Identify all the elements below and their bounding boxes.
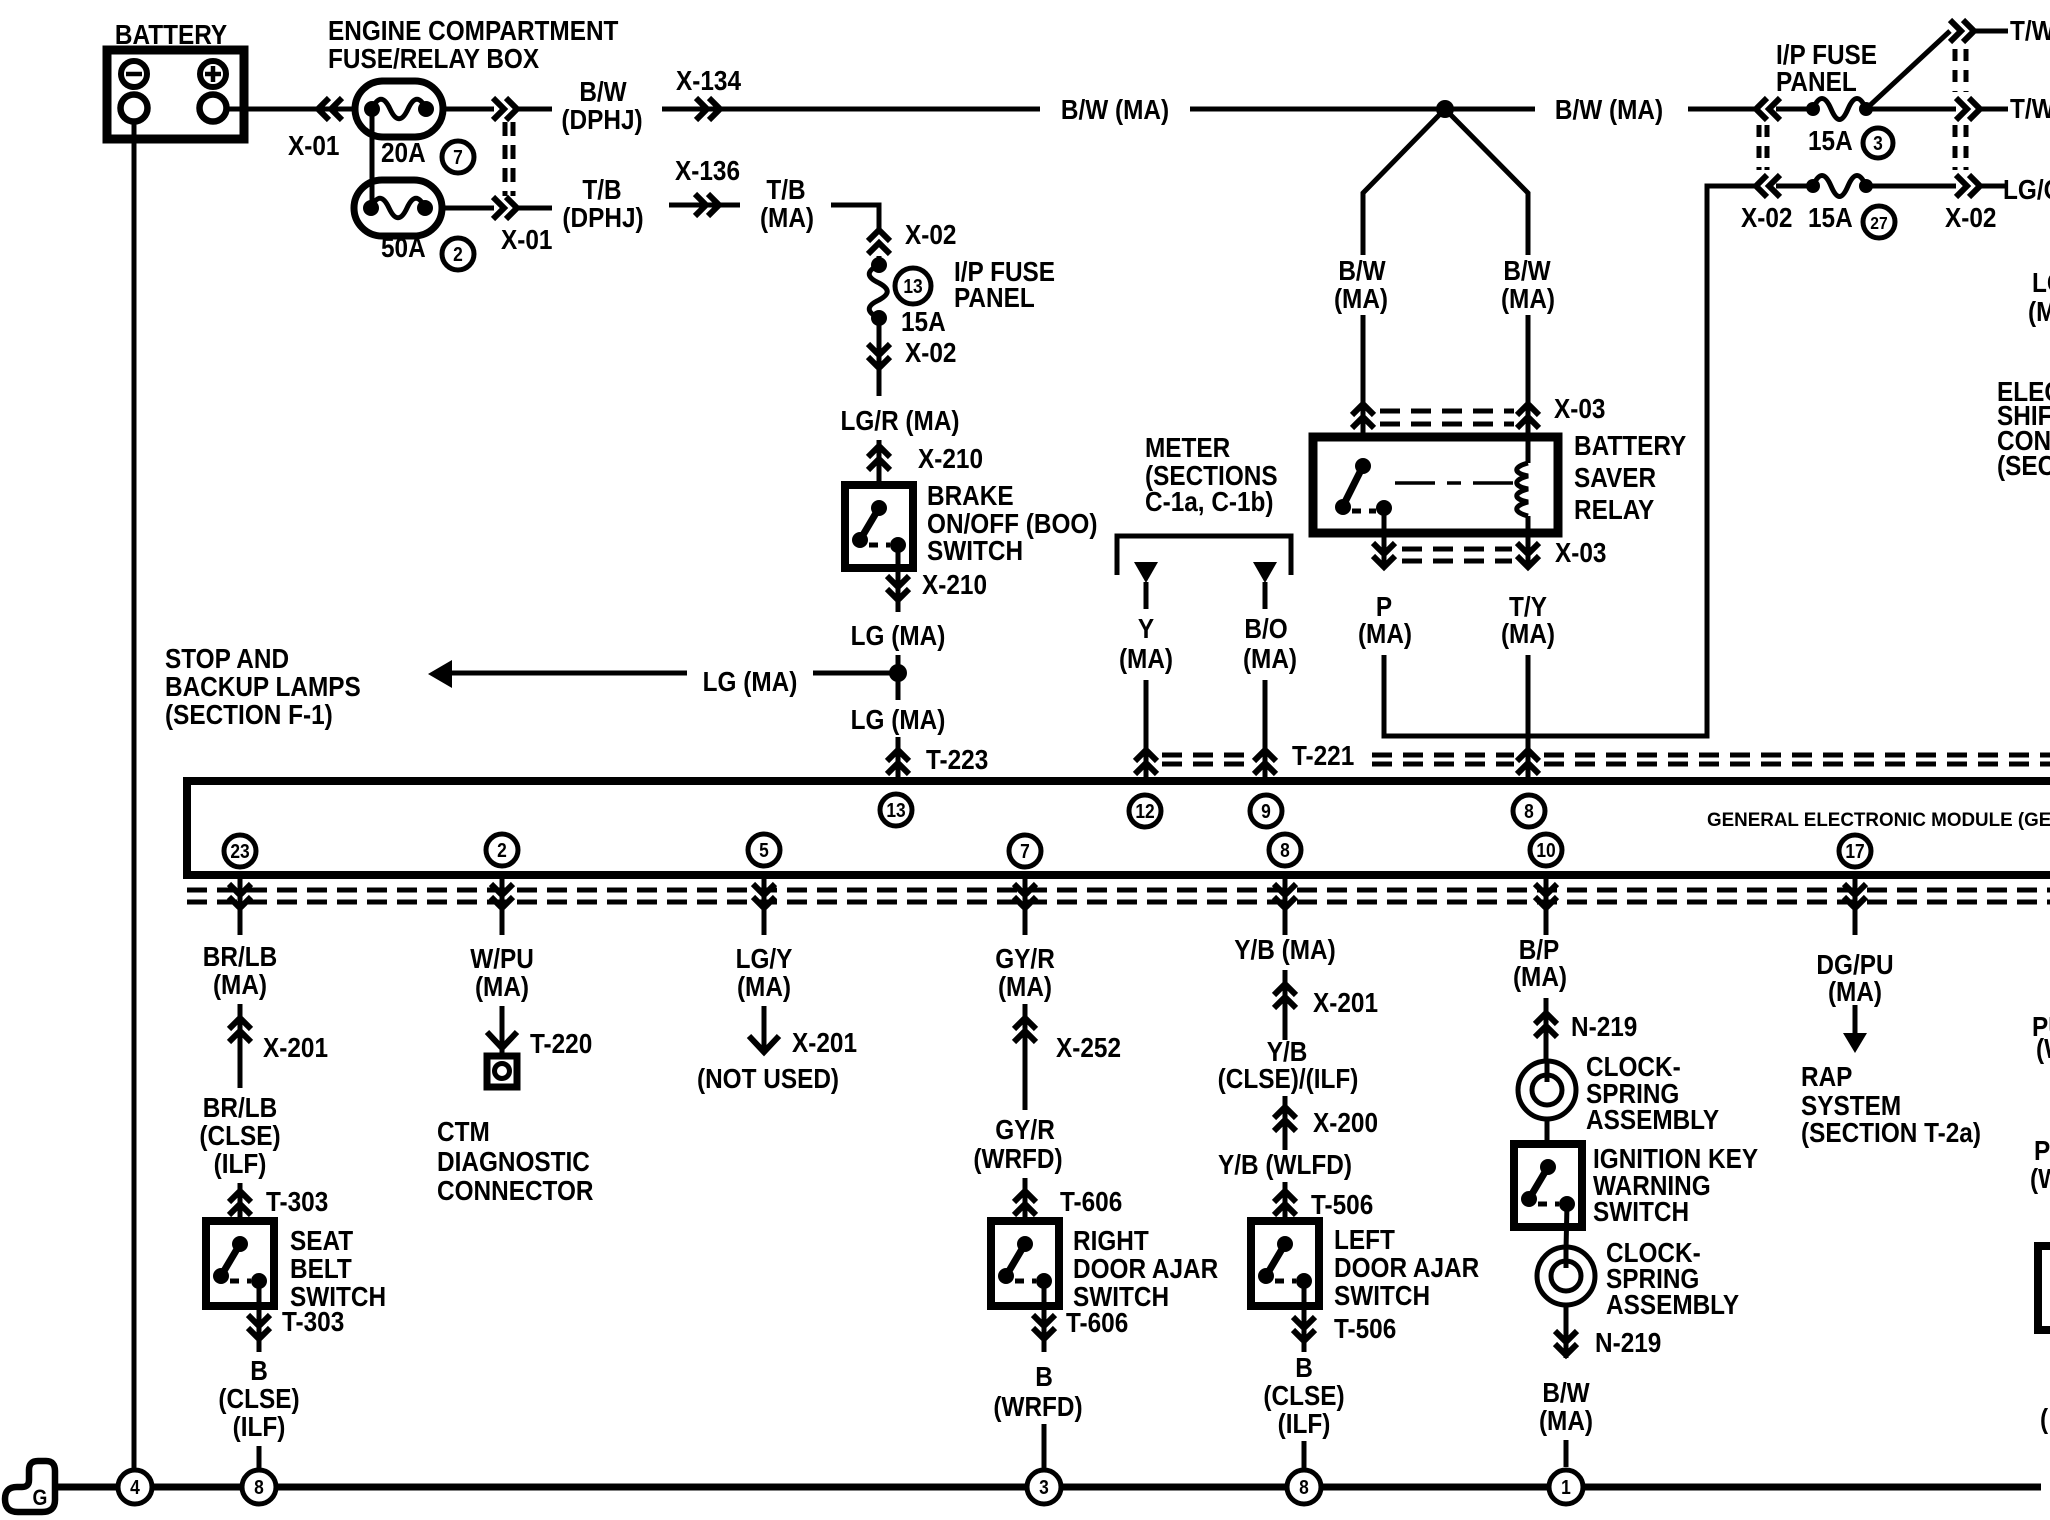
- GEM bottom connector chevrons x=764: [753, 884, 775, 908]
- wire LG to splice: [896, 655, 901, 700]
- CTM diagnostic connector icon: [487, 1056, 517, 1087]
- junction node B/W splice: [1436, 100, 1454, 118]
- svg-text:7: 7: [453, 146, 463, 168]
- svg-text:4: 4: [130, 1476, 140, 1498]
- connector T-223 chevrons: [887, 750, 909, 774]
- svg-text:BATTERY: BATTERY: [1574, 429, 1687, 461]
- wire P to I/P fuse panel feed: [1384, 186, 1756, 736]
- svg-text:X-201: X-201: [263, 1031, 328, 1063]
- connector T-606 chevrons below: [1033, 1315, 1055, 1339]
- connector X-02 chevrons below fuse 13: [868, 344, 890, 368]
- svg-text:17: 17: [1845, 840, 1864, 862]
- wire into fuse 13: [877, 256, 882, 266]
- svg-text:T-223: T-223: [926, 743, 988, 775]
- svg-text:Y/B (MA): Y/B (MA): [1234, 933, 1335, 965]
- svg-text:C-1a, C-1b): C-1a, C-1b): [1145, 485, 1274, 517]
- connector X-201 chevrons pin23: [229, 1018, 251, 1042]
- svg-text:(MA): (MA): [1501, 282, 1555, 314]
- svg-text:LG (MA): LG (MA): [703, 665, 798, 697]
- svg-text:7: 7: [1020, 840, 1030, 862]
- svg-text:(MA): (MA): [1513, 960, 1567, 992]
- svg-text:T-220: T-220: [530, 1027, 592, 1059]
- ground symbol G: [5, 1461, 55, 1512]
- fuse 27 15A (I/P fuse panel): [1813, 176, 1866, 197]
- svg-text:X-136: X-136: [675, 154, 740, 186]
- svg-text:(MA): (MA): [1243, 642, 1297, 674]
- wire BR/LB: [238, 1004, 243, 1088]
- svg-text:(WRFD): (WRFD): [973, 1142, 1062, 1174]
- connector dashed links right column: [1953, 49, 1958, 92]
- svg-text:(ILF): (ILF): [1278, 1407, 1331, 1439]
- connector T-221 dashed line: [1162, 753, 1250, 758]
- svg-text:8: 8: [1299, 1476, 1309, 1498]
- relay mechanical link dash-dot: [1395, 481, 1516, 485]
- ground bus node 8 (seat belt): [242, 1470, 276, 1504]
- brake on/off (BOO) switch: [845, 485, 913, 568]
- ground bus node 8 (left door): [1287, 1470, 1321, 1504]
- wire battery positive to fuse box: [227, 107, 356, 112]
- svg-text:X-01: X-01: [501, 223, 552, 255]
- svg-text:CONNECTOR: CONNECTOR: [437, 1174, 594, 1206]
- svg-text:LG (MA): LG (MA): [851, 619, 946, 651]
- connector X-02 chevrons above fuse 13: [868, 230, 890, 254]
- svg-text:(MA): (MA): [1334, 282, 1388, 314]
- meter bracket: [1117, 536, 1291, 575]
- GEM bottom connector chevrons x=240: [229, 884, 251, 908]
- connector X-03 dashed line below relay: [1402, 547, 1512, 552]
- GEM pin 2: [486, 834, 518, 866]
- connector X-01 right chevrons row2: [493, 197, 517, 219]
- svg-text:8: 8: [1524, 800, 1534, 822]
- connector T-221 chevron Y: [1135, 750, 1157, 774]
- svg-text:N-219: N-219: [1571, 1010, 1637, 1042]
- wire fuse 20A output: [443, 107, 494, 112]
- svg-text:(W: (W: [2036, 1032, 2050, 1064]
- relay switch contact: [1355, 458, 1371, 474]
- wire seat belt switch output: [257, 1281, 262, 1352]
- svg-text:T-606: T-606: [1060, 1185, 1122, 1217]
- wire B/W (MA) main feed: [662, 107, 1040, 112]
- connector N-219 chevrons below: [1555, 1331, 1577, 1355]
- wire T/B (MA) to I/P fuse 13: [831, 205, 879, 230]
- svg-text:15A: 15A: [1808, 124, 1853, 156]
- svg-text:15A: 15A: [901, 305, 946, 337]
- svg-text:3: 3: [1039, 1476, 1049, 1498]
- connector X-210 below BOO switch: [887, 576, 909, 600]
- GEM bottom connector chevrons x=1546: [1535, 884, 1557, 908]
- svg-text:X-134: X-134: [676, 64, 741, 96]
- svg-text:B/O: B/O: [1244, 612, 1287, 644]
- svg-text:X-02: X-02: [1945, 201, 1996, 233]
- wire B/P: [1544, 998, 1549, 1062]
- connector T-606 chevrons above: [1014, 1191, 1036, 1215]
- svg-text:DIAGNOSTIC: DIAGNOSTIC: [437, 1145, 590, 1177]
- wire to LG/R label: [877, 368, 882, 396]
- svg-text:LG (MA): LG (MA): [851, 703, 946, 735]
- svg-text:(ILF): (ILF): [214, 1147, 267, 1179]
- svg-text:1: 1: [1561, 1476, 1571, 1498]
- svg-text:RAP: RAP: [1801, 1060, 1852, 1092]
- svg-text:(SECTION T-2a): (SECTION T-2a): [1801, 1116, 1981, 1148]
- wire B/W (MA) to I/P fuse panel: [1688, 107, 1756, 112]
- svg-text:G: G: [33, 1486, 48, 1511]
- svg-text:(MA): (MA): [1828, 975, 1882, 1007]
- GEM pin 9: [1250, 795, 1282, 827]
- clock-spring assembly lower: [1537, 1247, 1595, 1305]
- wire to seat belt switch: [238, 1183, 243, 1221]
- wire DG/PU with arrow to RAP system: [1853, 1005, 1858, 1037]
- wire GEM pin column x=1855: [1853, 879, 1858, 935]
- connector T-303 chevrons below: [248, 1315, 270, 1339]
- svg-text:Y/B (WLFD): Y/B (WLFD): [1218, 1148, 1352, 1180]
- svg-text:10: 10: [1536, 839, 1555, 861]
- wire LG to GEM pin 13: [896, 737, 901, 781]
- wire fuse link: [370, 109, 375, 208]
- connector X-03 chevrons above relay: [1352, 404, 1374, 428]
- fuse 13 circuit number: [895, 268, 931, 304]
- svg-text:T/W: T/W: [2010, 92, 2050, 124]
- wire fuse 3 diagonal branch: [1866, 31, 1950, 109]
- wire right door switch output: [1042, 1281, 1047, 1352]
- meter output arrow B/O: [1253, 562, 1277, 583]
- GEM bottom connector dashed lines: [187, 888, 2050, 893]
- svg-text:T-506: T-506: [1334, 1312, 1396, 1344]
- svg-text:12: 12: [1135, 800, 1154, 822]
- ground bus node 4: [118, 1470, 152, 1504]
- svg-text:B/W (MA): B/W (MA): [1555, 93, 1663, 125]
- ground bus wire: [56, 1484, 119, 1491]
- fuse 3 15A (I/P fuse panel): [1813, 99, 1866, 120]
- wire GEM pin column x=240: [238, 879, 243, 935]
- battery negative terminal: [121, 61, 147, 87]
- connector X-01 dashed link: [503, 122, 508, 196]
- svg-text:BATTERY: BATTERY: [115, 18, 228, 50]
- wire to left door ajar switch: [1283, 1182, 1288, 1221]
- svg-text:20A: 20A: [381, 136, 426, 168]
- svg-text:27: 27: [1870, 213, 1887, 233]
- connector dashed links left column: [1757, 125, 1762, 170]
- svg-text:(WRFD): (WRFD): [993, 1390, 1082, 1422]
- svg-text:GY/R: GY/R: [995, 1113, 1055, 1145]
- battery positive terminal: [200, 61, 226, 87]
- wire GEM pin column x=502: [500, 879, 505, 935]
- left door ajar switch: [1251, 1221, 1319, 1306]
- clock-spring assembly upper: [1518, 1061, 1576, 1119]
- svg-text:3: 3: [1873, 132, 1883, 154]
- wire fuse 27 output: [1866, 184, 1956, 189]
- ground bus node 1 (ignition): [1549, 1470, 1583, 1504]
- wire W/PU with T-220 arrow: [500, 1006, 505, 1056]
- wire left door switch output: [1302, 1281, 1307, 1352]
- right door ajar switch: [991, 1221, 1059, 1306]
- svg-text:(MA): (MA): [760, 201, 814, 233]
- svg-text:9: 9: [1261, 800, 1271, 822]
- svg-text:ASSEMBLY: ASSEMBLY: [1586, 1103, 1720, 1135]
- svg-text:(W: (W: [2030, 1162, 2050, 1194]
- wire B/W splice diagonal right: [1445, 109, 1528, 255]
- connector chevrons into I/P fuse panel row1: [1756, 98, 1780, 120]
- meter output arrow Y: [1134, 562, 1158, 583]
- wire to B/W label: [517, 107, 552, 112]
- wire Y to GEM pin 12: [1144, 680, 1149, 781]
- svg-text:(ILF): (ILF): [233, 1410, 286, 1442]
- wire fuse 50A output: [442, 206, 494, 211]
- wire B/W branch right to relay coil: [1526, 315, 1531, 437]
- svg-text:X-02: X-02: [905, 336, 956, 368]
- svg-text:T/W: T/W: [2010, 14, 2050, 46]
- wire arrow to stop and backup lamps: [450, 671, 687, 676]
- svg-text:B: B: [1035, 1360, 1053, 1392]
- wire ignition switch output: [1566, 1204, 1567, 1250]
- relay switch output wire: [1382, 509, 1387, 568]
- svg-text:FUSE/RELAY BOX: FUSE/RELAY BOX: [328, 42, 540, 74]
- connector X-03 chevrons below relay: [1373, 543, 1395, 567]
- connector T-303 chevrons above: [229, 1191, 251, 1215]
- svg-text:Y: Y: [1138, 612, 1155, 644]
- svg-text:SWITCH: SWITCH: [1334, 1279, 1430, 1311]
- svg-text:(CLSE)/(ILF): (CLSE)/(ILF): [1218, 1062, 1359, 1094]
- GEM bottom connector chevrons x=1285: [1274, 884, 1296, 908]
- svg-text:(SECTION F-1): (SECTION F-1): [165, 698, 333, 730]
- connector X-210 above BOO switch: [877, 440, 882, 485]
- connector chevrons into I/P fuse panel row2: [1756, 175, 1780, 197]
- battery: [107, 50, 244, 139]
- svg-text:X-210: X-210: [922, 568, 987, 600]
- relay coil: [1526, 437, 1531, 463]
- wire fuse 3 output: [1866, 107, 1956, 112]
- svg-text:2: 2: [497, 839, 507, 861]
- GEM pin 7: [1009, 835, 1041, 867]
- svg-text:SWITCH: SWITCH: [927, 534, 1023, 566]
- svg-text:SWITCH: SWITCH: [1593, 1195, 1689, 1227]
- connector X-134 chevrons: [696, 98, 720, 120]
- fuse 20A circuit number 7: [442, 141, 474, 173]
- connector T-221 chevron B/O: [1254, 750, 1276, 774]
- clipped switch box right edge: [2038, 1246, 2050, 1330]
- wire GEM pin column x=1025: [1023, 879, 1028, 935]
- connector chevrons out row2-mid: [1956, 98, 1980, 120]
- svg-text:X-03: X-03: [1554, 392, 1605, 424]
- wire to ground bus pin8 circle: [257, 1446, 262, 1470]
- wire out of fuse 13: [877, 318, 882, 368]
- svg-text:X-200: X-200: [1313, 1106, 1378, 1138]
- wire T/B segment with X-136: [669, 203, 740, 208]
- wire B/W branch left to relay: [1361, 315, 1366, 437]
- connector X-201 chevrons pin8: [1274, 984, 1296, 1008]
- svg-text:T-303: T-303: [266, 1185, 328, 1217]
- general electronic module GEM box: [187, 781, 2050, 875]
- ignition key warning switch: [1514, 1144, 1582, 1227]
- fuse 27 circuit number: [1863, 206, 1895, 238]
- svg-text:ASSEMBLY: ASSEMBLY: [1606, 1288, 1740, 1320]
- svg-text:X-201: X-201: [792, 1026, 857, 1058]
- fuse 13 15A (I/P fuse panel): [869, 265, 887, 318]
- fuse 50A circuit number 2: [442, 238, 474, 270]
- svg-text:T-606: T-606: [1066, 1306, 1128, 1338]
- GEM pin 12: [1129, 795, 1161, 827]
- svg-text:13: 13: [886, 799, 905, 821]
- wire to right door ajar switch: [1023, 1178, 1028, 1221]
- svg-text:(MA): (MA): [1501, 617, 1555, 649]
- wire clockspring to ignition switch: [1545, 1118, 1550, 1144]
- connector N-219 chevrons above: [1535, 1013, 1557, 1037]
- wire clockspring lower output: [1564, 1304, 1569, 1358]
- fuse 50A (engine compartment): [354, 180, 442, 236]
- GEM pin 8 top: [1513, 795, 1545, 827]
- svg-text:5: 5: [759, 839, 769, 861]
- fuse 3 circuit number: [1863, 128, 1893, 158]
- wire to ground bus pin3 circle: [1042, 1424, 1047, 1470]
- seat belt switch: [206, 1221, 274, 1306]
- battery positive post: [200, 95, 227, 122]
- wire B/W splice diagonal left: [1363, 109, 1445, 255]
- svg-text:X-210: X-210: [918, 442, 983, 474]
- svg-text:T-221: T-221: [1292, 739, 1354, 771]
- svg-text:(MA): (MA): [213, 968, 267, 1000]
- svg-text:LG/O: LG/O: [2003, 173, 2050, 205]
- wire to fuse 3: [1776, 107, 1813, 112]
- svg-text:(MA): (MA): [1358, 617, 1412, 649]
- connector X-03 dashed line above relay: [1380, 409, 1514, 414]
- svg-text:(: (: [2040, 1402, 2048, 1434]
- connector T-506 chevrons below: [1293, 1317, 1315, 1341]
- connector chevrons out top: [1950, 20, 1974, 42]
- svg-text:8: 8: [1280, 839, 1290, 861]
- wire BOO switch output: [896, 546, 901, 612]
- svg-text:50A: 50A: [381, 231, 426, 263]
- svg-text:2: 2: [453, 243, 463, 265]
- svg-text:8: 8: [254, 1476, 264, 1498]
- svg-text:(NOT USED): (NOT USED): [697, 1062, 839, 1094]
- GEM bottom connector chevrons x=1855: [1844, 884, 1866, 908]
- svg-text:LG/R (MA): LG/R (MA): [840, 404, 959, 436]
- wire B/O to GEM pin 9: [1263, 680, 1268, 781]
- svg-text:X-03: X-03: [1555, 536, 1606, 568]
- connector T-506 chevrons above: [1274, 1191, 1296, 1215]
- GEM bottom connector chevrons x=1025: [1014, 884, 1036, 908]
- wire GY/R: [1023, 1004, 1028, 1110]
- svg-text:(DPHJ): (DPHJ): [562, 201, 643, 233]
- wire battery negative to ground bus: [132, 121, 137, 1470]
- svg-text:13: 13: [903, 275, 922, 297]
- wire T/Y to GEM pin 8: [1526, 655, 1531, 781]
- GEM pin 8 bottom: [1269, 834, 1301, 866]
- connector X-200 chevrons: [1274, 1107, 1296, 1131]
- svg-text:(MA): (MA): [475, 970, 529, 1002]
- connector X-252 chevrons: [1014, 1018, 1036, 1042]
- svg-text:(SECTION: (SECTION: [1997, 449, 2050, 481]
- connector T-221 chevron T/Y: [1517, 750, 1539, 774]
- GEM pin 10: [1530, 834, 1562, 866]
- wire to ground bus pin1 circle: [1564, 1440, 1569, 1467]
- svg-text:PANEL: PANEL: [1776, 65, 1857, 97]
- svg-text:GENERAL ELECTRONIC MODULE (GE: GENERAL ELECTRONIC MODULE (GE: [1707, 810, 2050, 831]
- svg-text:RELAY: RELAY: [1574, 493, 1655, 525]
- svg-text:T-303: T-303: [282, 1305, 344, 1337]
- GEM pin 5: [748, 834, 780, 866]
- connector chevrons out row3: [1956, 175, 1980, 197]
- svg-text:SAVER: SAVER: [1574, 461, 1656, 493]
- svg-text:CTM: CTM: [437, 1115, 490, 1147]
- GEM bottom connector chevrons x=502: [491, 884, 513, 908]
- svg-text:23: 23: [230, 840, 249, 862]
- wire B/W (MA) continuing: [1190, 107, 1535, 112]
- wire LG/Y with X-201 arrow: [762, 1006, 767, 1052]
- svg-text:T-506: T-506: [1311, 1188, 1373, 1220]
- GEM pin 17: [1839, 835, 1871, 867]
- GEM pin 13: [880, 794, 912, 826]
- fuse 20A (engine compartment): [355, 81, 443, 137]
- connector X-01 right chevrons row1: [493, 98, 517, 120]
- wire to fuse 27: [1776, 184, 1813, 189]
- svg-text:X-02: X-02: [1741, 201, 1792, 233]
- svg-text:(MA): (MA): [998, 970, 1052, 1002]
- svg-text:(MA): (MA): [1119, 642, 1173, 674]
- svg-text:X-252: X-252: [1056, 1031, 1121, 1063]
- ground bus node 3 (right door): [1027, 1470, 1061, 1504]
- wire Y/B mid: [1283, 1096, 1288, 1150]
- svg-text:15A: 15A: [1808, 201, 1853, 233]
- svg-text:X-01: X-01: [288, 129, 339, 161]
- GEM pin 23: [224, 835, 256, 867]
- svg-text:PANEL: PANEL: [954, 281, 1035, 313]
- svg-text:(DPHJ): (DPHJ): [561, 103, 642, 135]
- svg-text:B/W (MA): B/W (MA): [1061, 93, 1169, 125]
- svg-text:LG/O: LG/O: [2032, 266, 2050, 298]
- svg-text:N-219: N-219: [1595, 1326, 1661, 1358]
- wire to ground bus pin8b circle: [1302, 1441, 1307, 1470]
- svg-text:X-02: X-02: [905, 218, 956, 250]
- svg-text:X-201: X-201: [1313, 986, 1378, 1018]
- wire Y/B: [1283, 970, 1288, 1040]
- wire GEM pin column x=1546: [1544, 879, 1549, 935]
- wire GEM pin column x=764: [762, 879, 767, 935]
- svg-text:(MA): (MA): [737, 970, 791, 1002]
- junction node LG splice: [889, 664, 907, 682]
- svg-text:(MA): (MA): [2028, 295, 2050, 327]
- svg-text:(MA): (MA): [1539, 1404, 1593, 1436]
- connector X-01 inline chevrons: [318, 98, 342, 120]
- wire GEM pin column x=1285: [1283, 879, 1288, 935]
- battery saver relay: [1313, 437, 1558, 533]
- battery negative post: [121, 95, 148, 122]
